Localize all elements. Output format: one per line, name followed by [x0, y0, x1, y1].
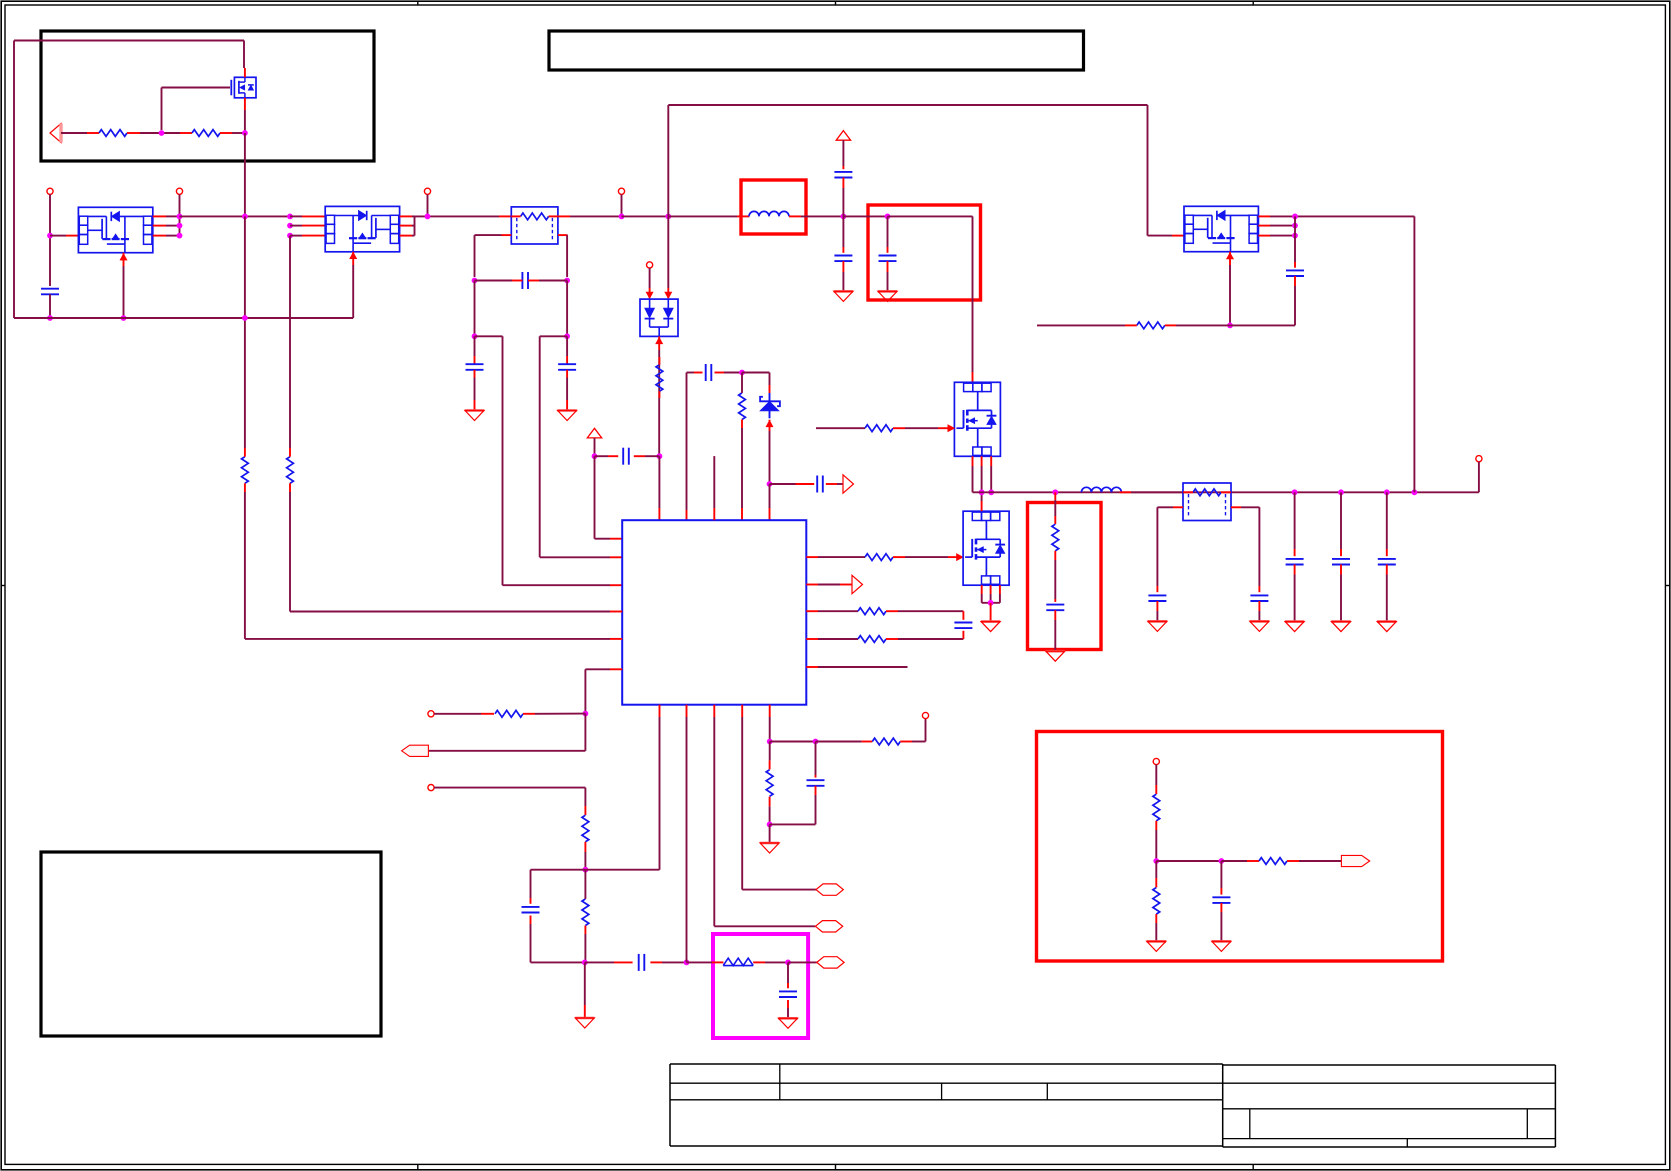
pin stub Q1 drain: [244, 68, 246, 77]
resistor R19 (vertical): [1153, 888, 1160, 915]
capacitor C10: [522, 907, 540, 913]
wire R17 to dead end: [1037, 324, 1230, 326]
pin connector P7 (circle): [428, 711, 434, 717]
wire top feed to Q4: [668, 105, 1184, 236]
node junction right tap lower: [564, 333, 570, 339]
ground GND6: [834, 291, 853, 301]
port PT2 (open triangle): [806, 575, 862, 593]
pin connector P9 (circle): [922, 712, 928, 718]
node junction R1/R2/Q1 gate: [159, 130, 165, 136]
node junction divider1: [1153, 858, 1159, 864]
resistor R9 (vertical): [242, 457, 249, 484]
node junction right tap/C2: [564, 278, 570, 284]
wire bus to D1 column: [622, 215, 669, 217]
wire Q6 drain pin riser: [981, 492, 983, 511]
node junction left tap lower: [472, 333, 478, 339]
wire bus node down through R9 to IC: [245, 216, 622, 639]
ground GND10: [1148, 621, 1167, 631]
capacitor C6: [706, 364, 712, 381]
wire P6 to D1 anode left: [649, 268, 651, 288]
wire P8 to R11 column: [434, 788, 585, 815]
pin connector P4 (circle): [424, 188, 430, 194]
wire U1 gate drive to Q6: [806, 556, 865, 558]
wire Q2 source to ground bus: [123, 266, 125, 318]
pin stubs Q4 right side: [1258, 216, 1295, 235]
wire R3 line to IC VIN pin: [658, 456, 660, 520]
node junction bus/Q1 branch: [242, 214, 248, 220]
wire U1 pin down to port PH1: [742, 705, 816, 890]
node junction Q4 source/C22: [1227, 323, 1233, 329]
resistor R5: [865, 554, 893, 561]
wire P3 to Q2 outputs tie: [179, 194, 181, 235]
node junction R2/Q1 source: [242, 130, 248, 136]
pin stub D1 anode right arrow: [665, 288, 672, 299]
pin connector P8 (circle): [428, 785, 434, 791]
wire Q3 outputs tie: [400, 216, 415, 235]
wire U1 comp pin riser: [686, 705, 688, 963]
pin stub Q4 source arrow: [1227, 252, 1234, 265]
wire Q1 node down to input bus: [244, 133, 246, 216]
wire left vertical rail x=14: [13, 41, 15, 319]
wire C22 bottom to R17: [1230, 324, 1295, 326]
wire U1 vcc pin down: [769, 705, 771, 742]
highlight box (black) lower-left empty note box: [41, 852, 381, 1036]
wire R20 to port PP2: [1287, 860, 1341, 862]
wire U1 comp to R6: [806, 610, 858, 612]
wire zener branch top: [742, 373, 770, 394]
wire R5 to Q6 gate: [893, 556, 948, 558]
IC U1 (controller): [622, 520, 806, 705]
wire to IC sense- column: [540, 336, 623, 557]
node junction fb1: [583, 867, 589, 873]
node junction SW/Q5: [979, 489, 985, 495]
capacitor C15: [834, 166, 852, 216]
wire divider node through R19 to gnd: [1155, 861, 1157, 941]
highlight box (black) title banner: [549, 31, 1084, 70]
wire Q5 gate feed: [816, 427, 865, 429]
wire P10 riser: [1478, 462, 1480, 493]
resistor R14 (vertical): [766, 770, 773, 797]
wire F1 right lower tap: [558, 235, 568, 277]
node junction P4/bus: [425, 214, 431, 220]
node junction bead out: [785, 960, 791, 966]
wire R10 to ilim node: [523, 713, 585, 715]
resistor R11 (vertical): [582, 815, 589, 842]
wire Q6 source bracket: [982, 585, 1000, 603]
wire fb node to U1 fb pin riser: [585, 705, 659, 870]
wire FB2 left tap: [1157, 507, 1183, 592]
wire P2 down left rail: [49, 194, 51, 286]
wire bus through C7 box: [843, 215, 887, 217]
capacitor C5: [595, 448, 660, 465]
node junction C15 top: [841, 214, 847, 220]
wire Q5 source pins to SW bus: [973, 456, 992, 492]
wire Q1 gate: [162, 88, 231, 131]
wire R6 to C9 top: [886, 611, 963, 620]
ground GND13: [1331, 622, 1350, 632]
wire Q6 source to ground: [990, 603, 992, 621]
ground GND2: [557, 411, 576, 421]
ground GND3: [575, 1018, 594, 1028]
ground GND4: [778, 1018, 797, 1028]
wire bus to L1: [668, 215, 749, 217]
capacitor C16: [834, 216, 852, 291]
node junctions Q2 outputs: [177, 214, 183, 239]
wire divider to R20: [1221, 860, 1259, 862]
wire Q1 source down to node: [244, 110, 246, 133]
pin stub D1 anode left arrow: [646, 288, 653, 299]
transistor Q5 (high-side vertical package): [954, 382, 1000, 456]
wire C1 to ground bus: [49, 294, 51, 318]
wire left tap down: [474, 281, 476, 337]
highlight box (red) around output divider R10/C13: [1028, 503, 1102, 650]
resistor R4: [739, 393, 746, 420]
resistor R3: [656, 365, 663, 392]
wire Q4 tie: [1294, 216, 1296, 235]
resistor R15: [865, 425, 893, 432]
resistor R7: [858, 636, 886, 643]
node junction PWR1/C5: [592, 453, 598, 459]
port PP1 (left pentagon): [402, 745, 429, 756]
node junction SW/R10box: [1052, 489, 1058, 495]
wire Q4 source down: [1229, 265, 1231, 325]
resistor R20: [1259, 858, 1287, 865]
port P1 (left arrow): [50, 124, 61, 143]
node junction Q6 source: [988, 600, 994, 606]
wire R16 to C13: [1054, 551, 1056, 602]
fuse F1 (boxed sense resistor): [511, 207, 558, 244]
wire comp rail into bead: [687, 961, 724, 963]
node junction out1: [1292, 489, 1298, 495]
pin stub Q2 source arrow: [120, 253, 127, 266]
capacitor C7: [879, 216, 897, 291]
wire P5 riser: [621, 194, 623, 216]
capacitor C18: [1250, 595, 1268, 601]
port PP2 (right pentagon): [1341, 855, 1369, 866]
pin stub Q3 source arrow: [350, 252, 357, 265]
pin connector P10 (circle): [1476, 456, 1482, 462]
wire R4 stubs: [741, 373, 743, 521]
power arrow PWR1: [587, 428, 601, 438]
capacitor C13: [1046, 605, 1064, 611]
ground GND16: [1212, 941, 1231, 951]
resistor R13: [872, 738, 900, 745]
zener diode D2: [760, 393, 780, 418]
node junction out3: [1384, 489, 1390, 495]
node junction P5/bus: [619, 214, 625, 220]
node junction SS: [767, 481, 773, 487]
wire P4 riser: [427, 194, 429, 216]
power arrow PWR2: [836, 131, 850, 141]
node junction ilim: [583, 711, 589, 717]
wire U1 ilim pin to node: [585, 669, 622, 711]
capacitor C4: [558, 336, 576, 410]
ground GND5: [760, 843, 779, 853]
highlight box (red) around input capacitor C7: [868, 205, 981, 300]
wire bus F1 to diode column: [558, 215, 622, 217]
wire P11 to R18: [1155, 765, 1157, 794]
port PT1 (open triangle): [843, 475, 854, 493]
transistor Q3 (dual MOSFET package): [325, 206, 399, 251]
transistor Q1: [231, 77, 256, 98]
inductor L1: [749, 211, 789, 216]
wire R2 to Q1 source node: [220, 132, 245, 134]
node junction comp rail: [684, 960, 690, 966]
capacitor C17: [1148, 595, 1166, 601]
wire bootstrap from Q4 to SW: [1295, 216, 1414, 492]
node junction vcc2: [813, 739, 819, 745]
pin stubs Q2 right side: [153, 216, 180, 235]
node junction Q2 source/bus: [121, 315, 127, 321]
capacitor C2 (across fuse): [475, 272, 568, 289]
capacitor C21: [1378, 492, 1396, 621]
resistor R17: [1137, 322, 1165, 329]
wire port P1 to R1: [61, 132, 99, 134]
wire PWR1 node to IC EN pin: [595, 456, 623, 539]
capacitor C11: [585, 954, 687, 971]
wire C17 to ground: [1156, 601, 1158, 621]
diode D1 (dual diode): [640, 299, 678, 336]
wire PWR1 down: [594, 438, 596, 456]
highlight box (red) around inductor L1: [741, 180, 806, 234]
wire R3 red stubs: [658, 357, 660, 398]
wire bus to Q5 drain: [888, 216, 973, 382]
node junctions Q3 inputs: [287, 214, 293, 239]
resistor R1: [99, 130, 127, 137]
wire Q3 tie down through R8 to IC: [290, 236, 622, 612]
ground GND1: [465, 411, 484, 421]
pin stub Q1 source: [244, 98, 246, 110]
node junction left tap/C2: [472, 278, 478, 284]
node junction R14/C14: [767, 822, 773, 828]
wire lower rail to ground: [584, 962, 586, 1017]
port PH1 (hex): [816, 884, 843, 895]
capacitor C22: [1286, 236, 1304, 326]
pin stubs Q3 left side: [290, 216, 325, 235]
capacitor C8: [770, 476, 844, 493]
node junction C1/bus: [47, 315, 53, 321]
wire Q3 source to ground bus corner: [14, 265, 353, 318]
wire C10 down to lower rail: [531, 916, 585, 963]
pin stub U1 top BST: [713, 456, 715, 520]
highlight box (black) around high-side switch circuit: [41, 31, 374, 161]
node junction out2: [1338, 489, 1344, 495]
ground GND8: [981, 622, 1000, 632]
wire fb node to C10: [531, 870, 586, 904]
wire L1 to C7 area: [789, 215, 843, 217]
wire C13 to ground: [1054, 610, 1056, 651]
capacitor C19: [1286, 492, 1304, 621]
wire P7 to R10: [434, 713, 494, 715]
pin arrow Q6 gate: [948, 554, 963, 561]
ground GND9: [1046, 651, 1065, 661]
wire R15 to Q5 gate arrow: [893, 425, 954, 432]
wire D1 column: [667, 105, 669, 288]
title block: [670, 1064, 1555, 1147]
wire U1 fb to R7: [806, 638, 858, 640]
wire U1 soft pin down to port PH2: [714, 705, 815, 927]
wire SS node to IC: [769, 484, 771, 520]
node junction C7 top: [885, 214, 891, 220]
wire F1 left lower tap: [475, 235, 512, 277]
wire vcc node right: [770, 741, 816, 743]
pin stub D2 anode arrow: [766, 420, 773, 431]
inductor L2: [1081, 487, 1183, 492]
pin connector P11 (circle): [1153, 758, 1159, 764]
pin connector P3 (circle): [176, 188, 182, 194]
wire right tap down: [566, 281, 568, 337]
wire top-left from box1 to Q1 drain: [14, 41, 244, 69]
ground bus junctions: [0, 0, 1, 1]
node junction lower rail: [582, 960, 588, 966]
pin stub D1 cathode arrow: [656, 336, 663, 350]
wire C18 to ground: [1258, 601, 1260, 621]
ground GND14: [1377, 622, 1396, 632]
ground GND7: [878, 291, 897, 301]
wire FB1 to out node: [753, 961, 788, 963]
wire input bus Q2 to Q3: [180, 215, 291, 217]
wire R14 node to gnd: [769, 824, 771, 842]
capacitor C14: [770, 742, 825, 825]
node junction bus/D1 column: [665, 214, 671, 220]
capacitor C3: [466, 336, 484, 410]
wire U1 pgood stub: [806, 666, 907, 668]
ferrite bead FB2 (boxed): [1183, 483, 1231, 521]
pin connector P5 (circle): [618, 188, 624, 194]
port PH3 (hex): [817, 957, 844, 968]
node junctions Q4 outputs: [1292, 214, 1298, 239]
wire to IC sense+ column: [475, 336, 623, 585]
transistor Q6 (low-side vertical package): [963, 511, 1009, 585]
wire gate node to Q2: [50, 235, 78, 237]
wire R11 to fb node: [584, 842, 586, 870]
wire divider node right: [1156, 860, 1221, 862]
wire to port PH3: [788, 961, 817, 963]
wire boot column to C6: [687, 373, 703, 521]
transistor Q4 (dual MOSFET package): [1184, 206, 1258, 251]
ground GND11: [1250, 621, 1269, 631]
transistor Q2 (dual MOSFET package): [78, 207, 152, 252]
node junction divider2: [1219, 858, 1225, 864]
node junction gate Q2: [47, 233, 53, 239]
wire R18 to divider node: [1155, 821, 1157, 861]
resistor R18 (vertical): [1153, 794, 1160, 821]
resistor R6: [858, 608, 886, 615]
wire D2 to SS node: [769, 431, 771, 484]
wire SW into red box divider: [1054, 492, 1056, 524]
capacitor C9: [954, 623, 972, 629]
node junction out4: [1412, 489, 1418, 495]
wire R13 to P9: [900, 719, 925, 742]
highlight box (magenta) around ferrite bead filter: [713, 934, 808, 1038]
ground GND15: [1147, 941, 1166, 951]
wire fb node through R12: [584, 870, 586, 963]
pin connector P2 (circle): [47, 188, 53, 194]
resistor R8 (vertical, EN divider): [287, 457, 294, 484]
node junction C6/R4: [739, 370, 745, 376]
resistor R12 (vertical): [582, 899, 589, 926]
node junction R3 line / C5: [657, 453, 663, 459]
wire D1 cathode to R3: [658, 350, 660, 454]
wire R1 to R2 with junction: [127, 132, 192, 134]
wire bus Q3 to fuse F1: [415, 215, 512, 217]
ground GND12: [1285, 622, 1304, 632]
resistor R10: [495, 710, 523, 717]
capacitor C1: [41, 289, 59, 295]
resistor R2: [192, 130, 220, 137]
wire vcc to R13: [816, 741, 873, 743]
capacitor C12: [779, 962, 797, 1018]
node junction SW/Q6: [988, 489, 994, 495]
port PH2 (hex): [815, 921, 842, 932]
node junction bus318/R9: [242, 315, 248, 321]
capacitor C23: [1212, 861, 1230, 941]
wire ilim node to port: [428, 714, 585, 751]
wire R7 to C9 bottom: [886, 631, 963, 639]
ferrite bead FB1: [723, 958, 753, 965]
wire C6 to zener node: [715, 372, 743, 374]
wire vcc node through R14 to gnd: [769, 742, 771, 825]
pin connector P6 (circle): [647, 262, 653, 268]
node junction vcc1: [767, 739, 773, 745]
wire FB2 right tap: [1231, 507, 1259, 592]
resistor R16 (vertical): [1052, 524, 1059, 551]
wire PWR2 down to C15: [842, 140, 844, 166]
highlight box (red) around feedback divider circuit: [1037, 732, 1443, 962]
capacitor C20: [1332, 492, 1350, 621]
wire SW bus: [973, 491, 1479, 493]
